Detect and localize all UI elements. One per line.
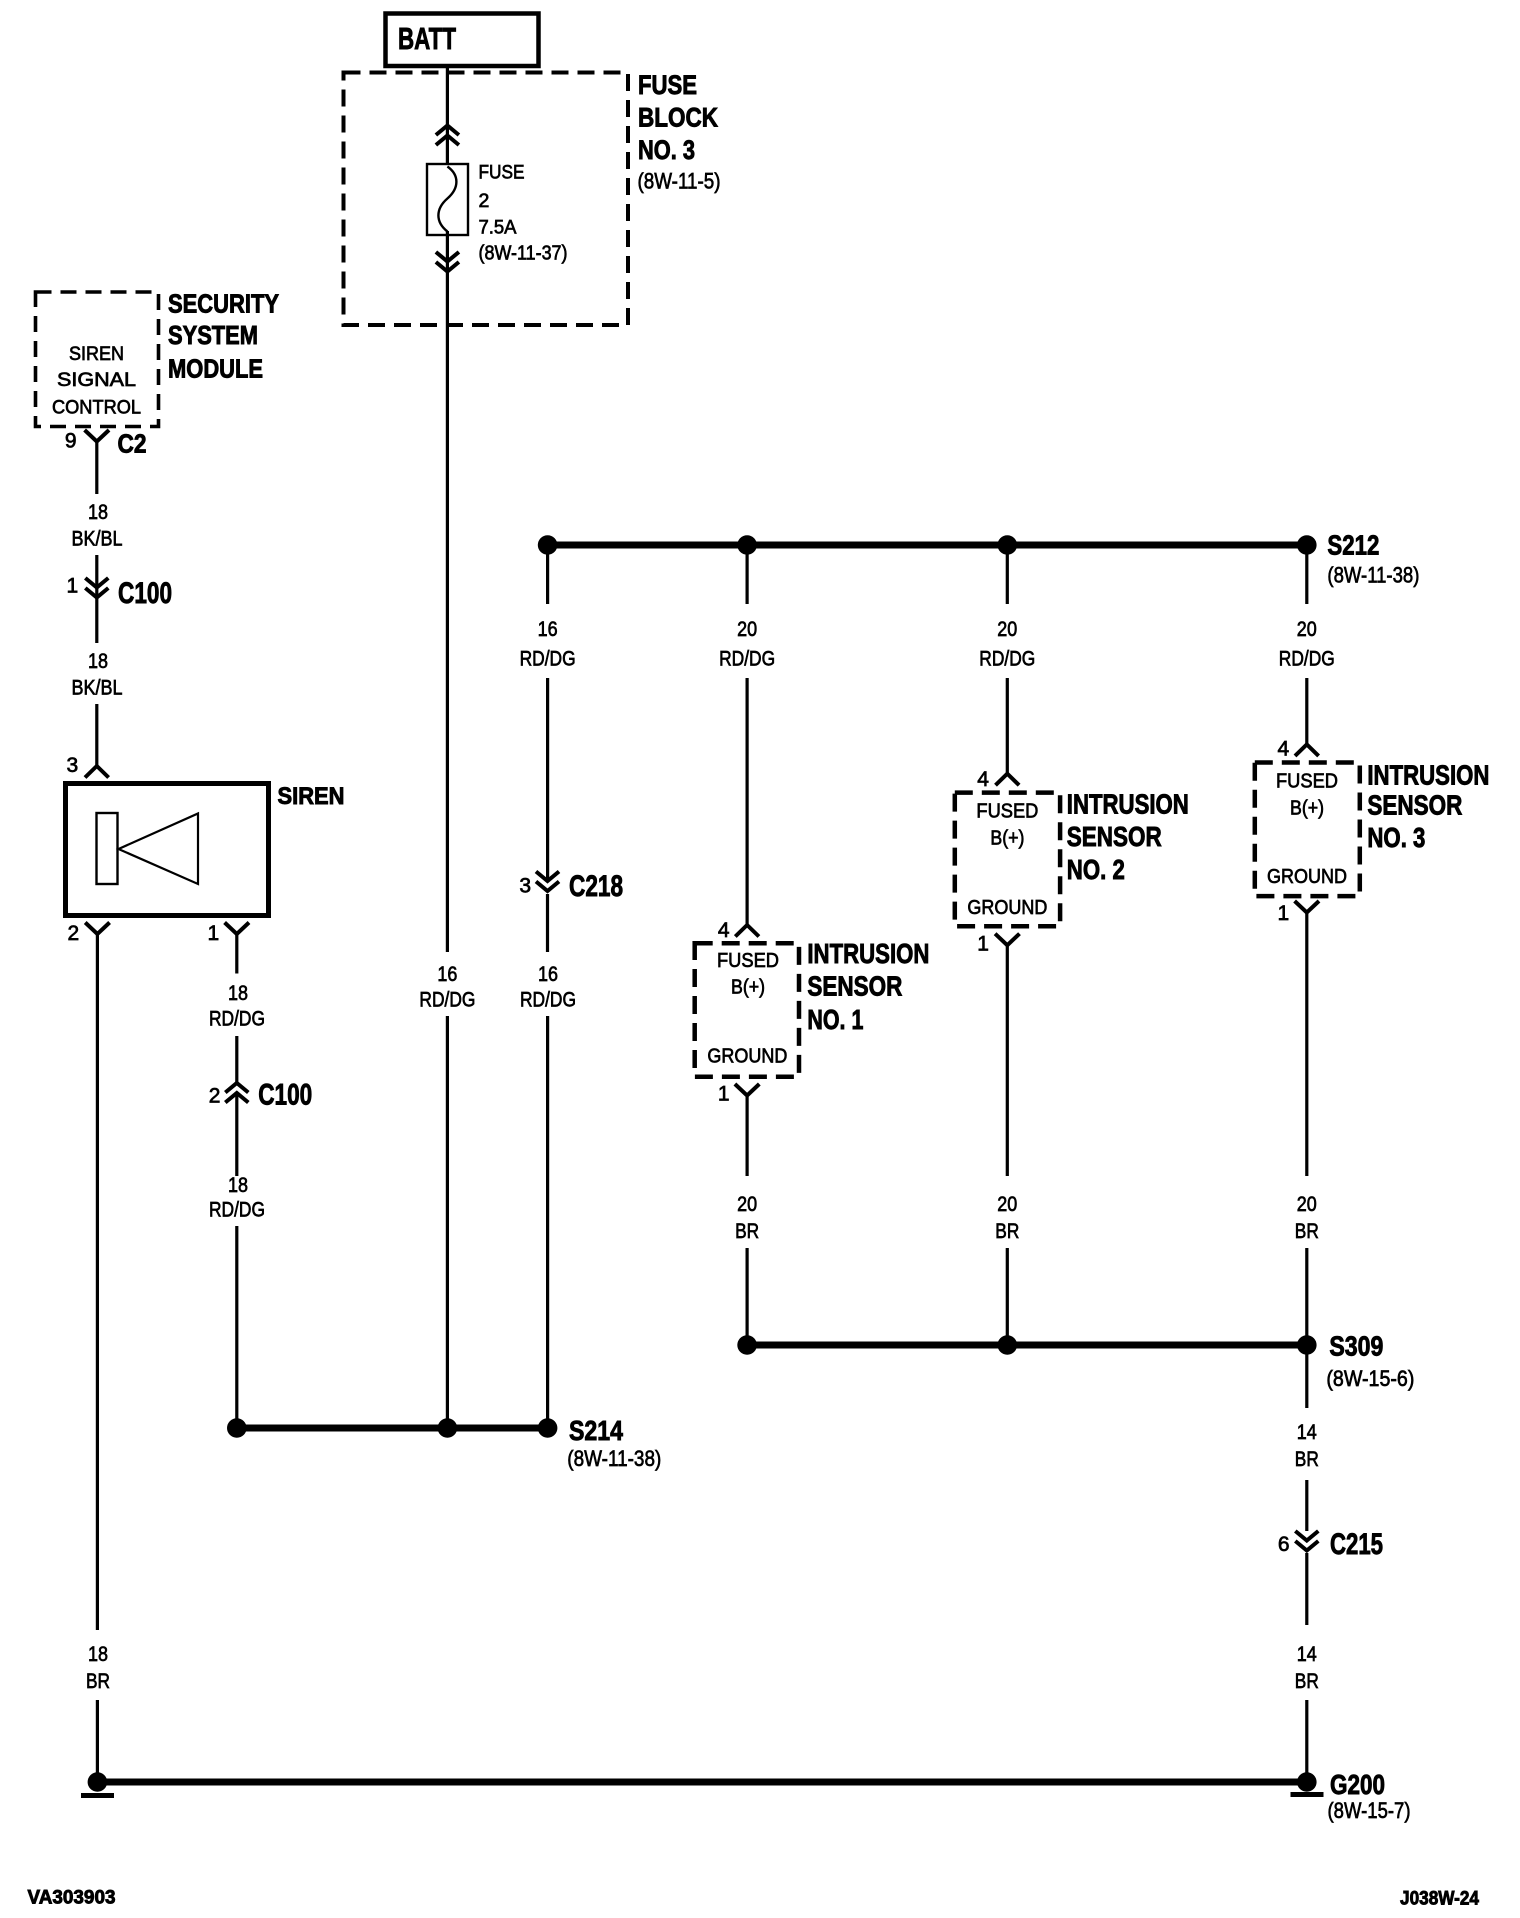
svg-text:20: 20 — [737, 1193, 757, 1216]
svg-text:20: 20 — [997, 618, 1017, 641]
svg-text:7.5A: 7.5A — [479, 217, 517, 239]
svg-text:1: 1 — [718, 1083, 730, 1106]
svg-text:(8W-11-37): (8W-11-37) — [479, 242, 568, 265]
svg-text:18: 18 — [88, 650, 108, 673]
svg-text:RD/DG: RD/DG — [209, 1199, 265, 1222]
svg-text:RD/DG: RD/DG — [419, 989, 475, 1012]
svg-text:14: 14 — [1297, 1421, 1317, 1444]
svg-text:C215: C215 — [1330, 1528, 1383, 1561]
svg-text:GROUND: GROUND — [707, 1046, 787, 1068]
svg-text:BATT: BATT — [398, 21, 456, 56]
svg-text:FUSE: FUSE — [638, 70, 697, 100]
svg-text:RD/DG: RD/DG — [1279, 648, 1335, 671]
svg-text:C100: C100 — [258, 1079, 312, 1112]
svg-text:RD/DG: RD/DG — [979, 648, 1035, 671]
svg-text:20: 20 — [1297, 618, 1317, 641]
svg-text:FUSED: FUSED — [976, 801, 1038, 823]
svg-text:G200: G200 — [1330, 1769, 1385, 1800]
svg-text:1: 1 — [208, 922, 220, 945]
svg-text:CONTROL: CONTROL — [52, 398, 141, 419]
svg-text:SYSTEM: SYSTEM — [168, 320, 258, 350]
svg-text:(8W-11-5): (8W-11-5) — [638, 169, 721, 194]
svg-text:BK/BL: BK/BL — [72, 528, 123, 551]
svg-text:BR: BR — [735, 1220, 759, 1243]
svg-text:18: 18 — [228, 1174, 248, 1197]
svg-text:C2: C2 — [118, 429, 147, 459]
svg-text:(8W-11-38): (8W-11-38) — [567, 1446, 661, 1471]
svg-text:3: 3 — [67, 754, 79, 777]
svg-text:(8W-15-6): (8W-15-6) — [1326, 1366, 1414, 1391]
svg-text:S214: S214 — [569, 1415, 623, 1446]
svg-text:SIREN: SIREN — [278, 783, 345, 810]
svg-text:16: 16 — [437, 963, 457, 986]
svg-text:FUSED: FUSED — [717, 950, 779, 972]
svg-text:GROUND: GROUND — [1267, 866, 1347, 888]
svg-text:SENSOR: SENSOR — [1067, 821, 1162, 852]
svg-text:VA303903: VA303903 — [28, 1887, 116, 1909]
svg-text:16: 16 — [538, 963, 558, 986]
svg-text:RD/DG: RD/DG — [209, 1008, 265, 1031]
svg-text:2: 2 — [209, 1085, 221, 1108]
svg-text:2: 2 — [479, 190, 490, 212]
svg-text:C218: C218 — [569, 870, 623, 903]
svg-text:4: 4 — [718, 919, 730, 942]
svg-text:14: 14 — [1297, 1643, 1317, 1666]
svg-text:4: 4 — [1278, 738, 1290, 761]
svg-text:4: 4 — [977, 768, 989, 791]
svg-text:6: 6 — [1278, 1533, 1290, 1556]
svg-text:RD/DG: RD/DG — [520, 648, 576, 671]
svg-text:BR: BR — [995, 1220, 1019, 1243]
svg-text:18: 18 — [88, 501, 108, 524]
svg-text:NO. 3: NO. 3 — [1367, 822, 1425, 853]
svg-text:20: 20 — [997, 1193, 1017, 1216]
svg-text:SENSOR: SENSOR — [1367, 790, 1462, 821]
svg-text:20: 20 — [1297, 1193, 1317, 1216]
svg-text:B(+): B(+) — [731, 977, 765, 999]
svg-text:9: 9 — [65, 430, 77, 453]
svg-text:BR: BR — [1295, 1670, 1319, 1693]
svg-text:SECURITY: SECURITY — [168, 289, 279, 319]
svg-text:BR: BR — [1295, 1448, 1319, 1471]
svg-text:NO. 1: NO. 1 — [807, 1004, 863, 1035]
svg-text:NO. 3: NO. 3 — [638, 135, 695, 165]
svg-text:INTRUSION: INTRUSION — [1067, 789, 1189, 820]
svg-text:SIREN: SIREN — [69, 344, 124, 365]
svg-text:20: 20 — [737, 618, 757, 641]
svg-text:MODULE: MODULE — [168, 354, 263, 384]
svg-text:B(+): B(+) — [990, 828, 1024, 850]
svg-text:BK/BL: BK/BL — [72, 677, 123, 700]
svg-text:GROUND: GROUND — [967, 897, 1047, 919]
svg-text:1: 1 — [977, 933, 989, 956]
svg-text:SENSOR: SENSOR — [807, 971, 902, 1002]
svg-text:C100: C100 — [118, 577, 172, 610]
svg-text:(8W-11-38): (8W-11-38) — [1327, 563, 1419, 588]
svg-text:1: 1 — [1278, 902, 1290, 925]
svg-text:18: 18 — [228, 982, 248, 1005]
svg-text:1: 1 — [67, 575, 79, 598]
svg-text:FUSED: FUSED — [1276, 771, 1338, 793]
svg-text:2: 2 — [68, 922, 80, 945]
svg-text:SIGNAL: SIGNAL — [57, 370, 136, 391]
svg-text:B(+): B(+) — [1290, 798, 1324, 820]
svg-text:(8W-15-7): (8W-15-7) — [1328, 1798, 1411, 1823]
svg-text:BR: BR — [86, 1670, 110, 1693]
svg-text:S212: S212 — [1327, 530, 1379, 561]
svg-text:BLOCK: BLOCK — [638, 103, 718, 133]
svg-text:16: 16 — [538, 618, 558, 641]
svg-text:FUSE: FUSE — [479, 162, 525, 184]
svg-text:INTRUSION: INTRUSION — [1367, 759, 1489, 790]
svg-text:J038W-24: J038W-24 — [1400, 1888, 1479, 1910]
svg-text:NO. 2: NO. 2 — [1067, 854, 1125, 885]
svg-text:S309: S309 — [1329, 1331, 1383, 1362]
svg-text:BR: BR — [1295, 1220, 1319, 1243]
svg-text:18: 18 — [88, 1643, 108, 1666]
svg-text:3: 3 — [519, 875, 531, 898]
svg-text:INTRUSION: INTRUSION — [807, 938, 929, 969]
svg-text:RD/DG: RD/DG — [520, 989, 576, 1012]
svg-text:RD/DG: RD/DG — [719, 648, 775, 671]
